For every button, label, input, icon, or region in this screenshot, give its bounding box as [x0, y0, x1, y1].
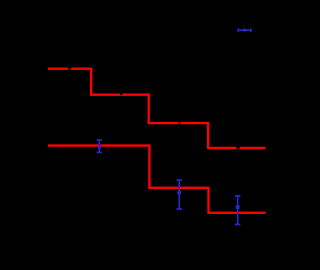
legend errorbar handle left cap — [237, 29, 239, 32]
blue errorbar 3 diamond marker — [236, 205, 240, 209]
blue errorbar 1 diamond marker — [98, 145, 102, 149]
hidden black marker notch 2 on upper series — [120, 93, 123, 96]
red step series 1 (upper histogram outline) — [48, 69, 266, 148]
blue errorbar 3 vertical line — [237, 196, 239, 225]
hidden black marker notch 1 on upper series — [68, 66, 72, 70]
legend errorbar handle right cap — [250, 29, 252, 32]
blue errorbar 2 top cap — [177, 179, 182, 181]
red step series 2 (lower histogram outline) — [48, 146, 266, 213]
legend errorbar handle diamond marker — [243, 28, 246, 32]
hidden black errorbar line notch 3 on upper series — [179, 121, 180, 126]
blue errorbar 1 vertical line — [98, 140, 100, 152]
blue errorbar 3 bottom cap — [235, 223, 240, 225]
blue errorbar 3 top cap — [235, 195, 240, 197]
blue errorbar 2 diamond marker — [177, 191, 181, 195]
blue errorbar 1 top cap — [97, 139, 102, 141]
legend errorbar handle horizontal line — [238, 29, 252, 31]
blue errorbar 2 vertical line — [178, 180, 180, 209]
hidden black marker notch 4 on upper series — [236, 146, 240, 150]
blue errorbar 2 bottom cap — [177, 208, 182, 210]
blue errorbar 1 bottom cap — [97, 151, 102, 153]
